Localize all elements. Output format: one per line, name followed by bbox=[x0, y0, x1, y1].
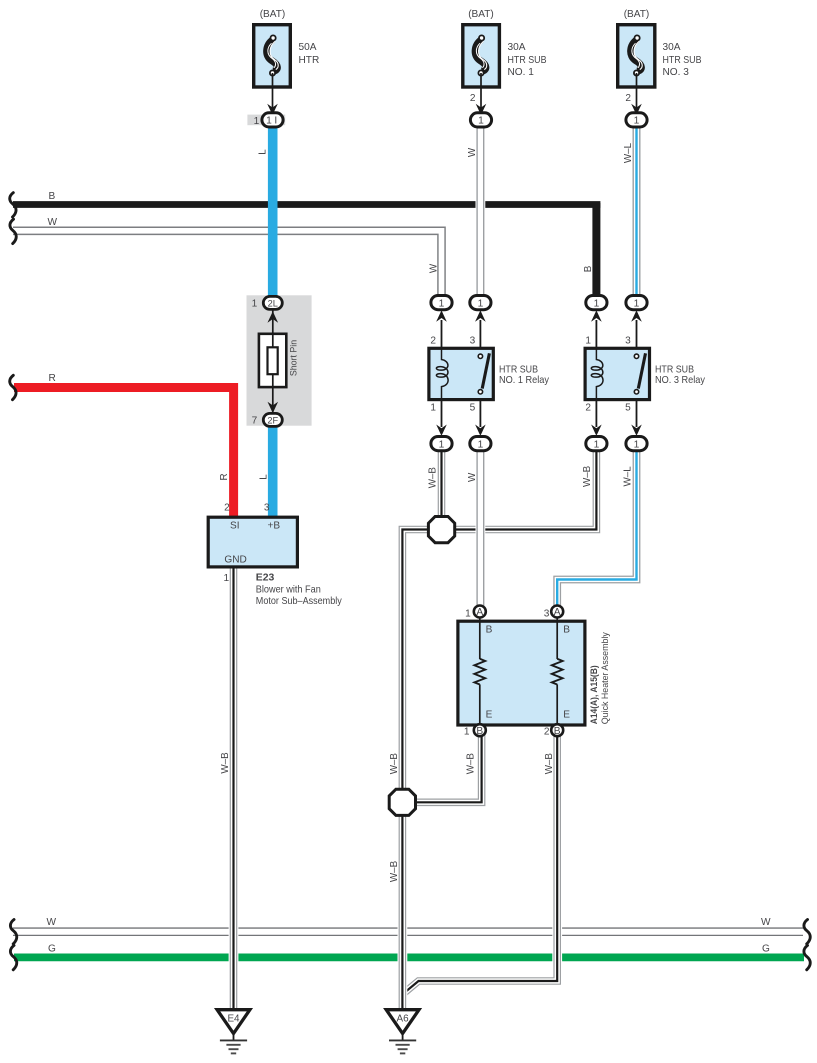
svg-text:5: 5 bbox=[625, 402, 631, 413]
svg-text:1: 1 bbox=[478, 116, 484, 127]
svg-text:W–B: W–B bbox=[389, 753, 400, 775]
svg-text:3: 3 bbox=[470, 335, 476, 346]
svg-text:1: 1 bbox=[465, 609, 471, 620]
svg-text:1: 1 bbox=[478, 439, 484, 450]
svg-text:W–B: W–B bbox=[466, 753, 477, 775]
svg-text:W: W bbox=[47, 917, 57, 928]
svg-text:2: 2 bbox=[430, 335, 436, 346]
svg-text:E: E bbox=[563, 710, 570, 721]
svg-text:(BAT): (BAT) bbox=[468, 9, 494, 20]
svg-text:B: B bbox=[49, 191, 56, 202]
svg-text:1: 1 bbox=[634, 116, 640, 127]
svg-text:W–B: W–B bbox=[220, 752, 231, 774]
svg-text:L: L bbox=[259, 474, 270, 480]
svg-text:1: 1 bbox=[439, 298, 445, 309]
svg-text:B: B bbox=[583, 265, 594, 272]
svg-text:1: 1 bbox=[634, 298, 640, 309]
svg-text:W–L: W–L bbox=[623, 466, 634, 487]
svg-text:2: 2 bbox=[625, 93, 631, 104]
svg-text:1: 1 bbox=[254, 116, 260, 127]
svg-text:HTR SUB: HTR SUB bbox=[508, 55, 547, 66]
svg-text:W: W bbox=[428, 263, 439, 273]
svg-text:HTR SUB: HTR SUB bbox=[663, 55, 702, 66]
svg-text:E23: E23 bbox=[256, 573, 275, 584]
svg-text:W: W bbox=[48, 217, 58, 228]
svg-text:(BAT): (BAT) bbox=[624, 9, 650, 20]
svg-text:1I: 1I bbox=[266, 116, 280, 127]
svg-text:1: 1 bbox=[464, 727, 470, 738]
svg-text:30A: 30A bbox=[508, 42, 526, 53]
svg-text:A: A bbox=[476, 607, 483, 618]
svg-text:B: B bbox=[554, 726, 561, 737]
svg-text:1: 1 bbox=[223, 573, 229, 584]
svg-text:Motor Sub–Assembly: Motor Sub–Assembly bbox=[256, 596, 343, 607]
svg-text:30A: 30A bbox=[663, 42, 681, 53]
svg-text:G: G bbox=[762, 944, 770, 955]
svg-text:R: R bbox=[49, 373, 56, 384]
svg-text:G: G bbox=[48, 944, 56, 955]
svg-text:1: 1 bbox=[585, 335, 591, 346]
svg-text:NO. 1: NO. 1 bbox=[508, 67, 535, 78]
svg-text:3: 3 bbox=[625, 335, 631, 346]
svg-text:W–B: W–B bbox=[428, 467, 439, 489]
svg-text:B: B bbox=[486, 624, 493, 635]
svg-text:HTR: HTR bbox=[299, 55, 320, 66]
svg-text:W–B: W–B bbox=[582, 465, 593, 487]
svg-text:W–B: W–B bbox=[544, 753, 555, 775]
svg-text:HTR SUB: HTR SUB bbox=[499, 364, 538, 375]
svg-text:1: 1 bbox=[430, 402, 436, 413]
svg-text:+B: +B bbox=[268, 521, 281, 532]
svg-text:2: 2 bbox=[470, 93, 476, 104]
svg-text:1: 1 bbox=[478, 298, 484, 309]
svg-text:7: 7 bbox=[252, 415, 258, 426]
svg-text:L: L bbox=[258, 149, 269, 155]
svg-text:E4: E4 bbox=[227, 1014, 240, 1025]
svg-text:W: W bbox=[467, 472, 478, 482]
svg-text:50A: 50A bbox=[299, 42, 317, 53]
svg-text:Quick Heater Assembly: Quick Heater Assembly bbox=[600, 632, 610, 725]
svg-text:NO. 1 Relay: NO. 1 Relay bbox=[499, 375, 550, 386]
svg-text:1: 1 bbox=[252, 298, 258, 309]
svg-text:SI: SI bbox=[230, 521, 240, 532]
svg-text:5: 5 bbox=[470, 402, 476, 413]
svg-text:GND: GND bbox=[224, 554, 246, 565]
svg-text:Short Pin: Short Pin bbox=[289, 340, 299, 376]
svg-text:1: 1 bbox=[439, 439, 445, 450]
svg-text:W: W bbox=[761, 917, 771, 928]
svg-text:2F: 2F bbox=[267, 416, 278, 426]
svg-text:A6: A6 bbox=[397, 1014, 410, 1025]
svg-text:R: R bbox=[219, 473, 230, 480]
svg-text:Blower with Fan: Blower with Fan bbox=[256, 584, 321, 595]
svg-text:W–B: W–B bbox=[389, 860, 400, 882]
svg-text:B: B bbox=[563, 624, 570, 635]
svg-text:NO. 3: NO. 3 bbox=[663, 67, 690, 78]
svg-text:1: 1 bbox=[634, 439, 640, 450]
svg-text:2: 2 bbox=[224, 503, 230, 514]
svg-text:A: A bbox=[554, 607, 561, 618]
svg-text:W: W bbox=[467, 147, 478, 157]
svg-text:A14(A), A15(B): A14(A), A15(B) bbox=[589, 665, 599, 724]
svg-text:2L: 2L bbox=[268, 299, 278, 309]
svg-text:3: 3 bbox=[544, 609, 550, 620]
svg-text:(BAT): (BAT) bbox=[260, 9, 286, 20]
svg-text:2: 2 bbox=[544, 727, 550, 738]
svg-text:2: 2 bbox=[585, 402, 591, 413]
svg-text:1: 1 bbox=[594, 298, 600, 309]
svg-text:W–L: W–L bbox=[623, 142, 634, 163]
svg-text:NO. 3 Relay: NO. 3 Relay bbox=[655, 375, 706, 386]
svg-text:1: 1 bbox=[594, 439, 600, 450]
svg-text:B: B bbox=[476, 726, 483, 737]
svg-text:HTR SUB: HTR SUB bbox=[655, 364, 694, 375]
svg-text:E: E bbox=[486, 710, 493, 721]
svg-text:3: 3 bbox=[264, 503, 270, 514]
